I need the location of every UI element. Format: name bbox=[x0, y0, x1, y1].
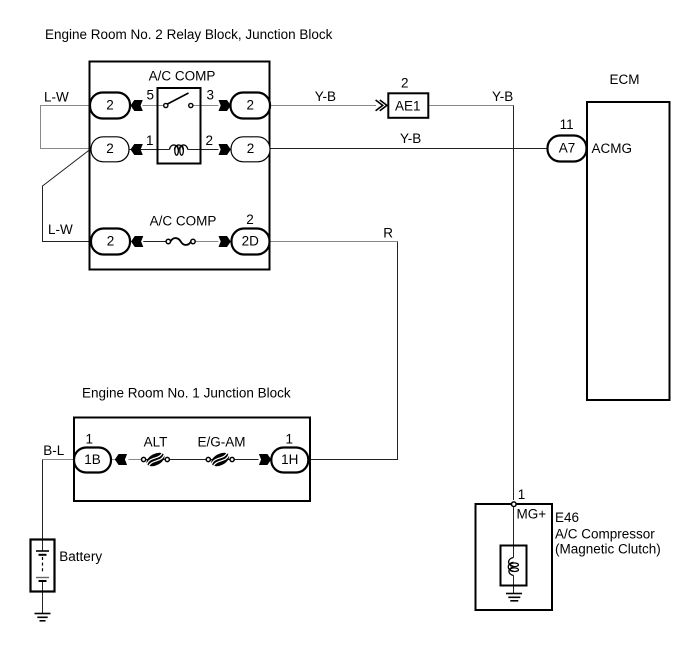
svg-text:A/C COMP: A/C COMP bbox=[149, 69, 216, 84]
svg-text:ECM: ECM bbox=[610, 72, 640, 87]
svg-text:5: 5 bbox=[147, 88, 155, 103]
svg-text:1: 1 bbox=[286, 432, 294, 447]
svg-text:2: 2 bbox=[246, 212, 254, 227]
svg-text:AE1: AE1 bbox=[395, 98, 421, 113]
svg-text:2: 2 bbox=[106, 141, 114, 156]
svg-text:Battery: Battery bbox=[59, 549, 102, 564]
svg-text:3: 3 bbox=[207, 88, 215, 103]
svg-text:(Magnetic Clutch): (Magnetic Clutch) bbox=[555, 542, 661, 557]
svg-text:1: 1 bbox=[86, 432, 94, 447]
svg-text:L-W: L-W bbox=[44, 90, 69, 105]
svg-text:MG+: MG+ bbox=[517, 507, 547, 522]
svg-text:R: R bbox=[383, 226, 393, 241]
svg-text:L-W: L-W bbox=[48, 222, 73, 237]
svg-text:1: 1 bbox=[518, 487, 526, 502]
svg-text:2D: 2D bbox=[242, 233, 260, 248]
svg-text:2: 2 bbox=[106, 97, 114, 112]
svg-text:11: 11 bbox=[560, 117, 574, 132]
svg-text:A/C Compressor: A/C Compressor bbox=[555, 527, 655, 542]
svg-text:2: 2 bbox=[206, 133, 214, 148]
svg-text:B-L: B-L bbox=[43, 443, 65, 458]
svg-text:E46: E46 bbox=[555, 510, 579, 525]
svg-text:Engine Room No. 2 Relay Block,: Engine Room No. 2 Relay Block, Junction … bbox=[45, 27, 333, 42]
svg-text:2: 2 bbox=[247, 141, 255, 156]
svg-text:Y-B: Y-B bbox=[492, 89, 513, 104]
svg-text:1H: 1H bbox=[281, 452, 298, 467]
svg-text:ACMG: ACMG bbox=[592, 141, 633, 156]
svg-text:Y-B: Y-B bbox=[315, 89, 336, 104]
svg-text:Engine Room No. 1 Junction Blo: Engine Room No. 1 Junction Block bbox=[82, 386, 291, 401]
svg-text:1B: 1B bbox=[84, 452, 101, 467]
svg-text:2: 2 bbox=[107, 233, 115, 248]
svg-text:E/G-AM: E/G-AM bbox=[197, 435, 245, 450]
svg-text:A7: A7 bbox=[559, 140, 576, 155]
svg-text:ALT: ALT bbox=[144, 435, 168, 450]
svg-text:2: 2 bbox=[247, 97, 255, 112]
svg-text:A/C COMP: A/C COMP bbox=[150, 214, 217, 229]
svg-text:1: 1 bbox=[146, 133, 154, 148]
svg-text:Y-B: Y-B bbox=[400, 131, 421, 146]
svg-text:2: 2 bbox=[401, 76, 409, 91]
